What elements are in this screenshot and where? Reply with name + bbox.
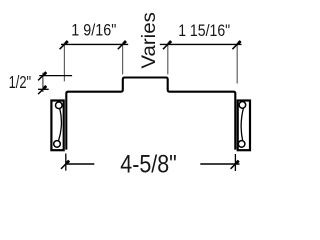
dim 1 9/16 left extension [63, 43, 65, 82]
tick [60, 41, 68, 49]
dim 1 15/16 left extension [167, 43, 169, 75]
left slot arc [59, 109, 62, 141]
dim 1 9/16 right extension [122, 43, 124, 75]
tick [38, 86, 46, 94]
tick [38, 72, 46, 80]
tick [232, 41, 240, 49]
left end plate [51, 101, 63, 151]
dim 1/2 bottom line [38, 88, 49, 90]
dim 1 15/16 right extension [236, 43, 238, 84]
right slot arc [241, 108, 243, 140]
dim 4-5/8 left extension [65, 154, 67, 171]
svg-text:Varies: Varies [139, 12, 160, 69]
svg-text:1 15/16": 1 15/16" [178, 21, 230, 40]
dim 4-5/8 line right segment [200, 163, 239, 165]
tick [163, 41, 171, 49]
right slot bottom hole [238, 141, 245, 148]
svg-text:1 9/16": 1 9/16" [71, 21, 116, 40]
tick [118, 41, 126, 49]
svg-text:4-5/8": 4-5/8" [120, 151, 177, 179]
dim 1 15/16 line [160, 43, 242, 45]
tick [231, 161, 239, 169]
right end plate [238, 101, 250, 151]
right slot top hole [239, 102, 246, 109]
channel profile outline [66, 78, 235, 150]
dim 1/2 vertical connector [42, 73, 44, 92]
left slot bottom hole [54, 141, 61, 148]
tick [61, 161, 69, 169]
dim 1/2 top line [39, 75, 72, 77]
dim 4-5/8 line left segment [66, 163, 95, 165]
dim 1 9/16 line [61, 43, 128, 45]
left slot top hole [56, 102, 63, 109]
svg-text:1/2": 1/2" [9, 72, 32, 92]
dim 4-5/8 right extension [234, 154, 236, 171]
